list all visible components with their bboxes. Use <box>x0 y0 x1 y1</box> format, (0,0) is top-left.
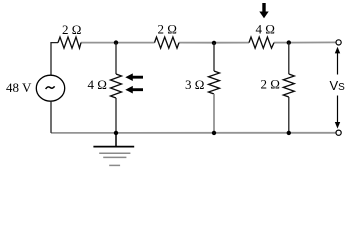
ground symbol <box>93 133 134 166</box>
wire node A down to R4 <box>115 43 117 74</box>
wire top segment node B to R3 <box>214 42 249 44</box>
junction dot bottom node C' <box>287 131 291 135</box>
control arrow upper pointing at R4 <box>125 73 143 81</box>
output terminal top (open circle) <box>336 40 341 45</box>
node B junction dot top <box>212 41 216 45</box>
Vs annotation arrow down <box>335 96 340 129</box>
wire R5 bottom to ground bus <box>213 94 215 133</box>
wire source bottom to ground bus <box>50 101 52 133</box>
resistor R3 4 ohm horizontal <box>249 37 274 48</box>
resistor R1 2 ohm horizontal <box>58 37 81 48</box>
svg-text:2 Ω: 2 Ω <box>62 22 81 37</box>
svg-text:3 Ω: 3 Ω <box>185 77 204 92</box>
output terminal bottom (open circle) <box>336 130 341 135</box>
wire R6 bottom to ground bus <box>288 97 290 133</box>
node A junction dot top <box>114 40 118 44</box>
voltage source VS1 48 V <box>36 75 64 101</box>
resistor R4 4 ohm vertical <box>111 74 122 98</box>
control arrow lower pointing at R4 <box>125 86 143 94</box>
resistor R5 3 ohm vertical <box>209 71 220 94</box>
node C junction dot top <box>287 40 291 44</box>
wire node B down to R5 <box>213 43 215 71</box>
resistor R2 2 ohm horizontal middle <box>155 37 180 48</box>
wire bottom bus <box>51 132 336 134</box>
wire top segment node C to output terminal <box>289 41 336 43</box>
wire top segment node A to R2 <box>116 42 155 44</box>
bold arrow marker above R3 <box>259 3 268 18</box>
svg-text:4 Ω: 4 Ω <box>88 77 107 92</box>
wire node C down to R6 <box>288 43 290 74</box>
wire top segment R2 to node B <box>179 42 214 44</box>
svg-text:4 Ω: 4 Ω <box>256 22 275 37</box>
wire top segment source corner to R1 <box>51 43 58 76</box>
junction dot bottom node B' <box>212 131 216 135</box>
wire top segment R3 to node C <box>274 42 289 44</box>
resistor R6 2 ohm vertical <box>283 74 294 97</box>
svg-text:2 Ω: 2 Ω <box>261 77 280 92</box>
svg-text:2 Ω: 2 Ω <box>158 22 177 37</box>
svg-text:48 V: 48 V <box>6 80 32 95</box>
junction dot bottom node A' <box>114 131 118 135</box>
Vs annotation arrow up <box>335 47 340 75</box>
wire R4 bottom to ground bus <box>115 98 117 133</box>
wire top segment R1 to node A <box>81 42 116 44</box>
